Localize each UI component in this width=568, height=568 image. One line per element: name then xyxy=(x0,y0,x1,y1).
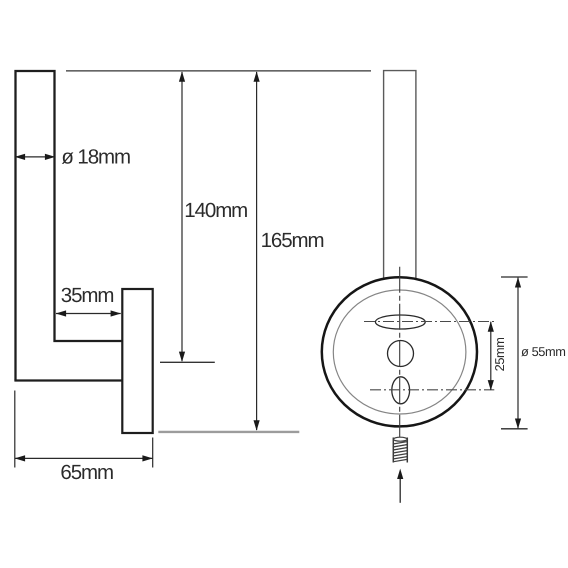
bottom gray reference line xyxy=(158,431,299,433)
lower oval hole xyxy=(392,377,410,404)
holder bar front view xyxy=(384,71,416,280)
vertical center line of front view xyxy=(399,267,401,437)
top reference line xyxy=(66,70,371,72)
dimension line 165mm xyxy=(256,72,258,430)
screw direction arrow xyxy=(399,472,401,503)
wall plate front view outer circle xyxy=(322,277,477,426)
wall plate front view inner circle xyxy=(333,290,466,414)
middle screw hole xyxy=(388,341,414,367)
plate centre stub line (140mm target) xyxy=(160,361,215,363)
svg-text:65mm: 65mm xyxy=(60,461,113,484)
svg-text:ø 18mm: ø 18mm xyxy=(61,146,130,169)
dimension 35mm arrow line xyxy=(56,313,121,315)
holder arm bottom edge (side view) xyxy=(14,379,121,381)
svg-text:25mm: 25mm xyxy=(492,337,507,371)
65mm left extension line xyxy=(14,391,16,468)
ø55mm top tick line xyxy=(501,276,528,278)
horizontal slot hole xyxy=(375,315,425,329)
65mm right extension line xyxy=(152,438,154,468)
dash-dot center line through lower hole xyxy=(370,389,494,391)
dimension ø18mm arrow line xyxy=(15,156,55,158)
dash-dot center line through slot hole xyxy=(364,321,494,323)
svg-text:35mm: 35mm xyxy=(61,284,114,307)
svg-text:ø 55mm: ø 55mm xyxy=(521,344,566,359)
dimension line 25mm xyxy=(490,322,492,390)
dimension line 140mm xyxy=(181,72,183,361)
screw stud below circle xyxy=(393,438,407,463)
dimension line ø55mm xyxy=(517,278,519,429)
ø55mm bottom tick line xyxy=(501,428,528,430)
svg-text:140mm: 140mm xyxy=(184,199,247,222)
wall plate side view xyxy=(122,289,152,433)
svg-text:165mm: 165mm xyxy=(261,229,324,252)
dimension 65mm arrow line xyxy=(15,457,153,459)
holder bar side view (left L-profile) xyxy=(16,71,122,381)
